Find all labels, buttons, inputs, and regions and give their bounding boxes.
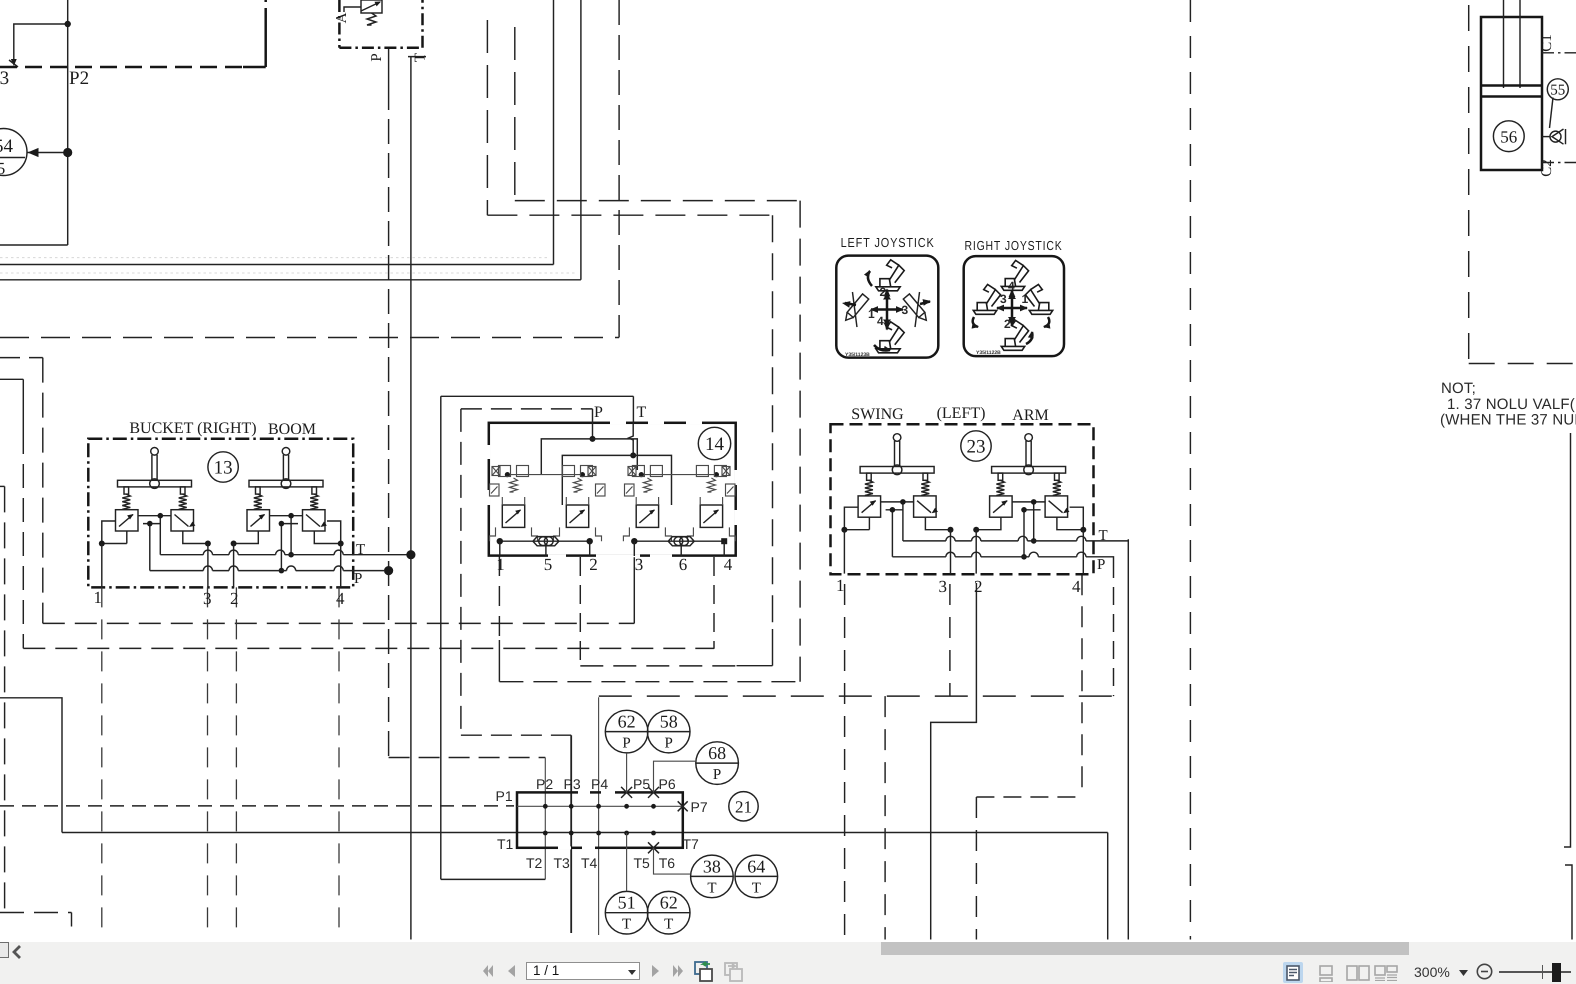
solid rail y486.4 corner x4.6 bbox=[0, 485, 5, 487]
nav next arrow bbox=[651, 964, 660, 978]
svg-text:4: 4 bbox=[724, 555, 733, 574]
vertical bus x553.5 (corner to y264.5) bbox=[553, 0, 555, 265]
node dot x68 y152 bbox=[63, 148, 72, 157]
dashed drop x800.1 to y681.7 bbox=[799, 201, 801, 682]
bus x23.3 down to y648.4 bbox=[22, 379, 24, 430]
T return line x440.8 block14 bbox=[440, 396, 442, 879]
block23 P drop x149.8 bbox=[891, 510, 893, 557]
svg-text:Y35/1122B: Y35/1122B bbox=[976, 350, 1001, 356]
svg-text:T: T bbox=[664, 917, 673, 933]
right joystick bottom pictogram bbox=[1001, 320, 1028, 350]
dashed bus x487.4 bbox=[486, 20, 488, 215]
dashed rail y665.9 bbox=[580, 665, 736, 667]
nav prev arrow bbox=[507, 964, 516, 978]
svg-text:BUCKET (RIGHT): BUCKET (RIGHT) bbox=[129, 420, 256, 437]
block14 unit 4 frame legs bbox=[687, 527, 693, 541]
svg-text:1: 1 bbox=[868, 307, 875, 321]
svg-text:T2: T2 bbox=[526, 855, 543, 871]
svg-text:5: 5 bbox=[544, 555, 553, 574]
wire 62/P to P5 bbox=[626, 753, 628, 793]
dashed pilot bus x619 with corner to y337.5 bbox=[618, 0, 620, 337]
dashed rail y681.7 bbox=[499, 681, 800, 683]
svg-text:64: 64 bbox=[747, 856, 765, 876]
block13 reducing valve right bbox=[171, 510, 194, 531]
block14 side relief valves bbox=[490, 484, 500, 496]
svg-text:6: 6 bbox=[679, 555, 688, 574]
block14 unit 2 valve bbox=[566, 505, 588, 527]
svg-text:RIGHT JOYSTICK: RIGHT JOYSTICK bbox=[965, 238, 1063, 253]
pilot T line x410.9 from top valve (solid full height) bbox=[410, 56, 412, 940]
port X marks P5 P6 P7 T6 bbox=[621, 787, 632, 798]
block23 P drop x281.4 bbox=[1023, 510, 1025, 557]
block13 P drop x281.4 bbox=[280, 524, 282, 571]
svg-text:P: P bbox=[594, 404, 603, 421]
block14 unit 4 pilot caps bbox=[696, 466, 708, 477]
faint dotted rail y273 bbox=[0, 272, 577, 274]
right joystick left pictogram bbox=[973, 284, 1000, 314]
left joystick right pictogram bbox=[896, 288, 936, 328]
svg-text:P1: P1 bbox=[496, 788, 513, 804]
block14 unit 3 pilot caps bbox=[632, 466, 644, 477]
dashed drop x885.1 bbox=[884, 696, 886, 939]
block13 reducing valve right bbox=[303, 510, 326, 531]
block23 P rail bbox=[892, 556, 946, 558]
svg-text:T7: T7 bbox=[683, 836, 700, 852]
C1 dash-dot line bbox=[1542, 52, 1576, 54]
swing T line x1128.3 bbox=[1127, 539, 1129, 939]
dashed line y623.4 (block14 port3 to left bus) bbox=[43, 622, 635, 624]
balloon 68/P bbox=[696, 742, 739, 785]
svg-text:P4: P4 bbox=[591, 776, 608, 792]
manifold port dots T row bbox=[543, 831, 548, 836]
block23 reducing valve left bbox=[858, 496, 881, 517]
svg-text:P: P bbox=[369, 53, 385, 61]
gauge circle 54 at left edge bbox=[0, 129, 27, 176]
block13 reducing valve left bbox=[247, 510, 270, 531]
balloon 13 bbox=[208, 452, 238, 482]
dashed drop x772.5 to y665.9 bbox=[772, 215, 774, 629]
C2 dash-dot line bbox=[1542, 162, 1576, 164]
svg-text:55: 55 bbox=[1550, 83, 1565, 99]
page combo box bbox=[526, 962, 640, 981]
svg-text:T: T bbox=[752, 880, 761, 896]
left joystick bottom pictogram bbox=[876, 322, 904, 353]
block23 wiring right half bbox=[1070, 507, 1084, 530]
svg-text:P5: P5 bbox=[633, 776, 650, 792]
sidebar toggle button bbox=[0, 942, 9, 958]
svg-text:(WHEN THE 37 NUMB: (WHEN THE 37 NUMB bbox=[1440, 412, 1576, 429]
manifold block body bbox=[517, 792, 683, 847]
dashed feeder rail y735.2 bbox=[461, 734, 571, 736]
combo caret bbox=[628, 970, 636, 975]
svg-text:T6: T6 bbox=[659, 855, 676, 871]
svg-text:3: 3 bbox=[635, 555, 644, 574]
svg-text:P7: P7 bbox=[691, 799, 708, 815]
balloon 55 bbox=[1547, 79, 1568, 100]
dashed rail y200.6 bbox=[515, 200, 800, 202]
svg-text:1: 1 bbox=[836, 576, 845, 595]
cylinder rod bbox=[1503, 0, 1505, 88]
block13 port stubs inside box bbox=[101, 544, 103, 588]
svg-text:13: 13 bbox=[214, 458, 233, 479]
svg-text:2: 2 bbox=[589, 555, 598, 574]
block14 P distribution wire bbox=[541, 439, 637, 475]
svg-text:51: 51 bbox=[618, 893, 636, 913]
horizontal scrollbar thumb bbox=[881, 942, 1409, 955]
long dashed P rail y805.9 bbox=[0, 805, 514, 807]
svg-text:1: 1 bbox=[94, 588, 103, 607]
next view icon (disabled) bbox=[724, 962, 744, 982]
balloon 62/P bbox=[605, 710, 648, 753]
block14 port4 drop x714 to y648.4 bbox=[713, 557, 715, 649]
layout icon two pages bbox=[1346, 965, 1370, 981]
page combo text bbox=[533, 963, 559, 978]
balloon 64/T bbox=[735, 855, 778, 898]
svg-text:P6: P6 bbox=[659, 776, 676, 792]
block13 P rail bbox=[150, 570, 204, 572]
swing port4 drop x1080.3 with jog bbox=[1081, 574, 1083, 797]
svg-text:Y35/1123B: Y35/1123B bbox=[845, 352, 870, 358]
link 55 to check valve bbox=[1550, 98, 1554, 129]
balloon 62/T bbox=[647, 891, 690, 934]
pilot valve assembly top (dash-dot box) bbox=[339, 0, 422, 48]
svg-text:C1: C1 bbox=[1539, 34, 1555, 52]
svg-text:T: T bbox=[356, 542, 365, 558]
valve body square top bbox=[361, 0, 382, 13]
svg-text:P2: P2 bbox=[69, 68, 89, 89]
block14 pair top rails bbox=[507, 474, 582, 476]
dashed rail y357.6 corner x42.8 bbox=[0, 357, 43, 359]
svg-text:T: T bbox=[622, 917, 631, 933]
svg-text:LEFT JOYSTICK: LEFT JOYSTICK bbox=[841, 235, 935, 250]
P3 feeder x571.2 bbox=[570, 735, 572, 933]
svg-text:P3: P3 bbox=[564, 776, 581, 792]
svg-text:T4: T4 bbox=[581, 855, 598, 871]
wire stub from valve to A bbox=[344, 7, 361, 12]
dashed pilot line y67 (P2 line) bbox=[0, 66, 243, 69]
svg-text:T: T bbox=[707, 880, 716, 896]
nav last-page arrows bbox=[672, 964, 684, 978]
block23 T drop x291 bbox=[1033, 502, 1035, 541]
block14 port2 drop x580.3 bbox=[579, 557, 581, 666]
drop x1107.7 to bottom bbox=[1107, 833, 1109, 940]
svg-text:23: 23 bbox=[967, 437, 986, 458]
block14 port drops inside box bbox=[499, 541, 501, 556]
svg-text:P2: P2 bbox=[536, 776, 553, 792]
block23 T rail exit to x1128 bbox=[1086, 540, 1128, 542]
block14 shuttle valve left bbox=[533, 537, 559, 546]
block13 crossbar push pins bbox=[256, 487, 261, 494]
block14 unit 2 spring bbox=[574, 478, 582, 492]
P4 feeder x598.6 bbox=[598, 697, 600, 935]
block23 crossbar push pins bbox=[867, 473, 872, 480]
block14 unit 2 pilot caps bbox=[563, 466, 575, 477]
block23 crossbar push pins bbox=[998, 473, 1003, 480]
rail y879.4 (T2 to block14 T) bbox=[441, 878, 546, 880]
block13 crossbar push pins bbox=[124, 487, 129, 494]
pilot valve block 23 border (dashed) bbox=[831, 424, 1094, 574]
block13 wiring right half bbox=[327, 521, 341, 544]
rail y396.3 block14 T to x440.8 bbox=[441, 395, 634, 397]
svg-text:A: A bbox=[334, 12, 350, 23]
dashed P feed x460.9 bbox=[460, 409, 462, 735]
svg-text:3: 3 bbox=[1000, 292, 1007, 306]
block23 P rail exit to x1113.5 bbox=[1086, 557, 1114, 560]
svg-text:4: 4 bbox=[336, 589, 345, 608]
block14 bottom rails bbox=[500, 540, 590, 542]
block13 lever crossbar bbox=[249, 480, 323, 487]
svg-text:ARM: ARM bbox=[1012, 407, 1048, 424]
svg-text:38: 38 bbox=[703, 856, 721, 876]
zoom slider track bbox=[1499, 971, 1571, 973]
block13 lever handle bbox=[151, 448, 159, 456]
svg-text:T1: T1 bbox=[497, 836, 514, 852]
block23 wiring left half bbox=[844, 507, 858, 530]
right border line x1570.5 bbox=[1564, 433, 1571, 847]
block23 reducing valve right bbox=[1045, 496, 1068, 517]
svg-text:T5: T5 bbox=[634, 855, 651, 871]
block13 T rail bbox=[160, 554, 203, 556]
balloon 56 bbox=[1493, 121, 1524, 152]
right joystick top pictogram bbox=[1001, 260, 1028, 290]
faint dotted rail y257.6 bbox=[0, 257, 550, 259]
block14 T distribution wire bbox=[562, 455, 671, 505]
left joystick center cross arrows bbox=[871, 290, 903, 330]
svg-text:21: 21 bbox=[735, 798, 752, 817]
block23 lever crossbar bbox=[860, 467, 934, 474]
layout icon two columns bbox=[1374, 965, 1398, 981]
vertical bus x580.9 (corner to y279.8) bbox=[580, 0, 582, 280]
svg-text:56: 56 bbox=[1500, 128, 1517, 147]
balloon 38/T bbox=[691, 855, 734, 898]
zoom caret bbox=[1459, 970, 1468, 976]
svg-text:P: P bbox=[354, 571, 362, 587]
wire P2 vertical bus x68 bbox=[67, 0, 69, 245]
svg-text:P3: P3 bbox=[0, 68, 9, 89]
svg-text:4: 4 bbox=[877, 314, 884, 328]
block13 P rail exit to x388.6 bbox=[343, 570, 384, 572]
block13 T rail exit to x411 bbox=[343, 554, 406, 556]
swing port1 drop x844.6 bbox=[844, 584, 846, 940]
svg-text:68: 68 bbox=[708, 743, 726, 763]
balloon 51/T bbox=[605, 891, 648, 934]
swing P drop x1113.5 bbox=[1113, 560, 1115, 696]
svg-text:T3: T3 bbox=[554, 855, 571, 871]
dashed corner y912.5 x71.5 bottom left bbox=[0, 912, 72, 914]
left joystick left pictogram (crossed pencil) bbox=[836, 288, 876, 328]
bus x4.6 down to y912.5 bbox=[4, 486, 6, 912]
block14 unit 1 frame legs bbox=[490, 527, 496, 541]
nav first-page arrows bbox=[482, 964, 494, 978]
block13 T drop x291 bbox=[290, 516, 292, 555]
svg-text:T: T bbox=[637, 404, 647, 421]
block13 lever handle bbox=[282, 448, 290, 456]
layout icon one column bbox=[1319, 965, 1334, 982]
dashed rail y408.9 block14 P feed bbox=[461, 408, 593, 410]
T port stub bbox=[408, 56, 426, 58]
block23 springs bbox=[865, 480, 873, 495]
cylinder body bbox=[1481, 17, 1542, 170]
dashed line y648.4 (block14 port4 to left bus) bbox=[23, 647, 714, 649]
svg-text:62: 62 bbox=[618, 712, 636, 732]
dashed rail y696.1 (swing P to manifold) bbox=[599, 695, 1114, 697]
block13 junction dots bbox=[99, 541, 105, 547]
check valve bbox=[1542, 136, 1550, 138]
solid rail y379.3 corner x23.3 bbox=[0, 378, 23, 380]
pilot valve block 13 border (dash-dot) bbox=[88, 439, 353, 588]
solid rail y264.5 full left width bbox=[0, 264, 554, 266]
block14 unit 4 spring bbox=[707, 478, 715, 492]
block14 unit 4 valve bbox=[700, 505, 722, 527]
valve spring bottom bbox=[367, 13, 376, 25]
svg-text:SWING: SWING bbox=[851, 406, 904, 423]
svg-text:2: 2 bbox=[1004, 317, 1011, 331]
block13 T drop x160 bbox=[159, 516, 161, 555]
block14 unit 3 valve bbox=[636, 505, 658, 527]
dashed rail y215.2 bbox=[487, 214, 772, 216]
block13 wiring left half bbox=[102, 521, 116, 544]
wire T6 to 38/T bbox=[654, 848, 691, 874]
block23 lever handle bbox=[893, 434, 901, 442]
block23 T drop x160 bbox=[902, 502, 904, 541]
zoom out button bbox=[1476, 963, 1493, 980]
zoom slider tick bbox=[1542, 965, 1544, 979]
cylinder piston bbox=[1481, 84, 1542, 87]
solid rail y279.8 bbox=[0, 279, 581, 281]
svg-text:62: 62 bbox=[660, 893, 678, 913]
manifold P row line bbox=[517, 805, 683, 807]
svg-text:2: 2 bbox=[230, 589, 239, 608]
svg-text:4: 4 bbox=[1072, 577, 1081, 596]
svg-text:5: 5 bbox=[0, 159, 5, 178]
swing port2 drop x976.4 with jog bbox=[931, 583, 977, 940]
svg-text:2: 2 bbox=[974, 577, 983, 596]
block13 springs bbox=[254, 494, 262, 509]
dashed bus x42.8 down to y623.4 bbox=[42, 358, 44, 624]
block23 cross wire upper bbox=[881, 501, 915, 503]
svg-text:BOOM: BOOM bbox=[268, 421, 316, 438]
zoom slider handle bbox=[1552, 963, 1561, 982]
svg-text:54: 54 bbox=[0, 136, 14, 157]
block23 reducing valve left bbox=[990, 496, 1013, 517]
block23 port stubs inside box bbox=[843, 530, 845, 574]
block13 port lines below box bbox=[101, 587, 103, 936]
collapse chevron bbox=[11, 945, 23, 959]
block23 lever crossbar bbox=[992, 467, 1066, 474]
dashed feeder rail y757.5 from top-valve P bbox=[389, 757, 546, 759]
page dashed bus x1190 bbox=[1189, 0, 1191, 940]
svg-text:T: T bbox=[413, 53, 429, 62]
balloon 21 bbox=[729, 792, 758, 821]
block14 unit 1 spring bbox=[510, 478, 518, 492]
dashed bus x514.8 bbox=[514, 27, 516, 201]
previous view icon bbox=[694, 961, 714, 982]
svg-text:(LEFT): (LEFT) bbox=[937, 405, 986, 422]
dashed rail y363.5 right side bbox=[1469, 363, 1576, 365]
block13 lever crossbar bbox=[118, 480, 192, 487]
block14 port1 drop to y681.7 bbox=[498, 556, 500, 640]
left joystick top pictogram bbox=[876, 260, 904, 291]
zoom percentage bbox=[1414, 964, 1450, 980]
layout icon single page (active) bbox=[1283, 962, 1303, 983]
block23 T rail bbox=[903, 540, 946, 542]
manifold port dots P row bbox=[543, 804, 548, 809]
P2-T2 feeder x545.3 bbox=[544, 758, 546, 880]
svg-text:58: 58 bbox=[660, 712, 678, 732]
block14 unit 1 valve bbox=[502, 505, 524, 527]
balloon 14 bbox=[698, 427, 730, 459]
block13 P drop x149.8 bbox=[149, 524, 151, 571]
svg-text:P: P bbox=[713, 767, 721, 783]
wire 68/P to P6 bbox=[654, 761, 697, 792]
block23 springs bbox=[996, 480, 1004, 495]
pilot P line x388.6 from top valve bbox=[388, 48, 390, 85]
wire T5 to 51/T bbox=[626, 833, 628, 891]
block13 springs bbox=[122, 494, 130, 509]
wire horizontal y245 to left edge bbox=[0, 244, 68, 246]
wire corner up x265.7 bbox=[264, 18, 267, 67]
block14 port3 drop x634.3 bbox=[633, 556, 635, 623]
left joystick box bbox=[836, 256, 938, 358]
left supply corner x62 bbox=[0, 698, 62, 833]
block14 shuttle valve right bbox=[668, 537, 694, 546]
block14 unit 1 pilot caps bbox=[499, 466, 511, 477]
dashed pilot rail y337.5 bbox=[0, 337, 619, 339]
svg-text:P: P bbox=[665, 736, 673, 752]
long T supply rail y832.5 across page bbox=[62, 832, 1108, 834]
svg-text:1: 1 bbox=[496, 555, 505, 574]
svg-text:14: 14 bbox=[705, 434, 725, 455]
block23 lever handle bbox=[1025, 434, 1033, 442]
block13 reducing valve left bbox=[116, 510, 139, 531]
dashed box x1468.7 right side bbox=[1468, 5, 1470, 364]
right joystick right pictogram bbox=[1025, 284, 1052, 314]
svg-text:3: 3 bbox=[203, 589, 212, 608]
wire from circle 54 with left arrowhead bbox=[27, 152, 68, 154]
balloon 58/P bbox=[647, 710, 690, 753]
svg-text:P: P bbox=[622, 736, 630, 752]
block23 junction dots bbox=[841, 527, 847, 533]
svg-text:NOT;: NOT; bbox=[1441, 380, 1476, 397]
node junction dot on x68 bus bbox=[65, 21, 71, 27]
svg-text:1. 37 NOLU VALF(BO: 1. 37 NOLU VALF(BO bbox=[1447, 396, 1576, 413]
right joystick center cross arrows bbox=[997, 290, 1027, 326]
balloon 23 bbox=[961, 431, 991, 461]
right joystick box bbox=[964, 256, 1064, 356]
block13 cross wire upper bbox=[138, 515, 172, 517]
svg-text:P: P bbox=[1097, 557, 1105, 573]
valve block 14 border bbox=[489, 423, 736, 556]
wire junction tap to relief arrow bbox=[14, 24, 68, 60]
svg-text:T: T bbox=[1099, 528, 1108, 544]
swing port3 drop x949.9 bbox=[949, 584, 951, 696]
block23 reducing valve right bbox=[914, 496, 937, 517]
block14 unit 3 spring bbox=[643, 478, 651, 492]
svg-text:3: 3 bbox=[939, 577, 948, 596]
block14 unit 2 frame legs bbox=[554, 527, 560, 541]
block14 unit 3 frame legs bbox=[623, 527, 629, 541]
